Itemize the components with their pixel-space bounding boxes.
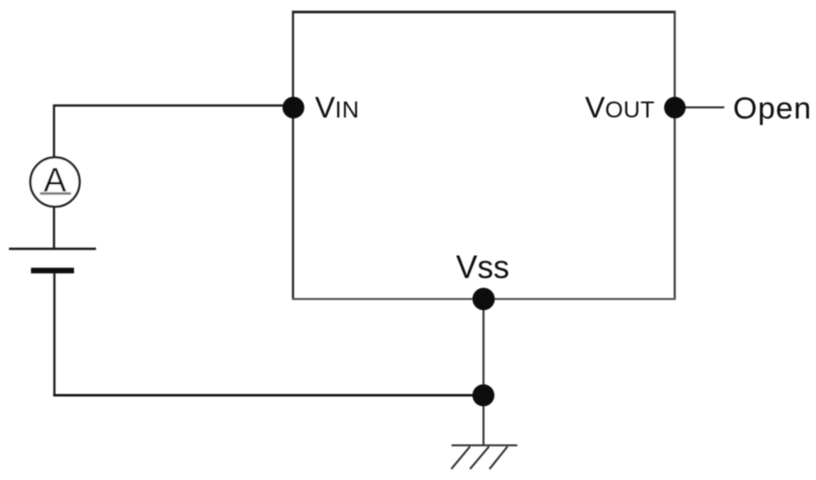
svg-text:VOUT: VOUT bbox=[585, 92, 655, 125]
svg-text:VIN: VIN bbox=[315, 92, 359, 125]
wire bottom junction to ground (vertical) bbox=[482, 396, 484, 446]
ammeter A bbox=[30, 157, 79, 206]
ground bbox=[451, 445, 517, 469]
wire ammeter to battery (vertical) bbox=[53, 206, 55, 250]
wire VOUT to Open (horizontal) bbox=[675, 106, 724, 108]
node bottom rail junction dot bbox=[472, 384, 494, 406]
svg-text:Open: Open bbox=[733, 91, 812, 126]
node VIN junction dot bbox=[283, 97, 305, 119]
wire VIN to ammeter (horizontal) bbox=[54, 104, 293, 106]
device under test box bbox=[292, 11, 676, 299]
node VOUT junction dot bbox=[664, 97, 686, 119]
battery positive plate bbox=[9, 248, 96, 250]
node VSS junction dot bbox=[472, 288, 494, 310]
svg-text:Vss: Vss bbox=[456, 249, 509, 285]
wire VSS to bottom junction (vertical) bbox=[482, 299, 484, 396]
wire ammeter top (vertical) bbox=[53, 105, 55, 159]
wire battery to bottom rail (vertical) bbox=[53, 273, 55, 396]
battery negative plate bbox=[31, 268, 74, 274]
wire bottom rail (horizontal) bbox=[53, 394, 484, 397]
